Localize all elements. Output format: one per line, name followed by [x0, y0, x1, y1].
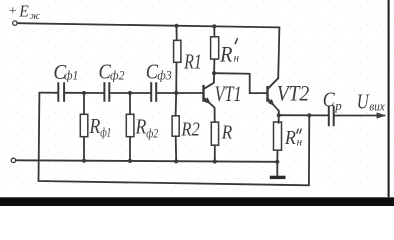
svg-text:VT2: VT2 — [277, 81, 310, 106]
svg-text:p: p — [334, 98, 342, 113]
svg-text:ф3: ф3 — [157, 68, 172, 83]
svg-text:ф2: ф2 — [146, 125, 158, 140]
svg-text:+: + — [8, 4, 17, 19]
svg-text:R: R — [89, 114, 101, 138]
svg-text:R: R — [135, 115, 147, 139]
svg-text:U: U — [357, 90, 370, 114]
svg-text:C: C — [323, 87, 336, 111]
svg-text:ф1: ф1 — [64, 68, 78, 83]
svg-text:E: E — [18, 1, 29, 20]
svg-text:ф2: ф2 — [110, 68, 125, 83]
svg-text:R: R — [219, 41, 233, 66]
svg-text:R: R — [284, 127, 296, 149]
svg-text:R: R — [221, 122, 232, 144]
svg-text:ф1: ф1 — [100, 125, 111, 140]
svg-text:вих: вих — [369, 100, 385, 114]
svg-text:н: н — [234, 53, 240, 65]
svg-text:R2: R2 — [181, 119, 200, 141]
svg-text:VT1: VT1 — [215, 81, 242, 106]
svg-text:R1: R1 — [184, 50, 202, 74]
svg-text:н: н — [297, 136, 303, 148]
svg-text:ж: ж — [30, 10, 41, 22]
